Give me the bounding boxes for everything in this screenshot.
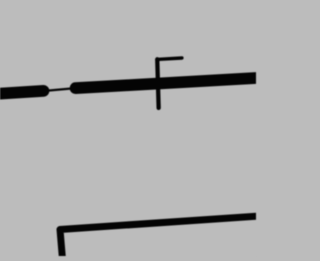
wire (right thick segment of horizontal net, exits right edge) (76, 78, 261, 88)
wire (vertical tap crossing the horizontal net) (157, 59, 158, 108)
wire (thin connecting lead between thick segments) (44, 88, 76, 91)
component body (top-left corner of large rectangle outline at bottom) (60, 216, 258, 258)
wire (left thick segment of horizontal net) (0, 91, 44, 94)
wire (top stub of vertical tap, bends right) (157, 58, 182, 59)
